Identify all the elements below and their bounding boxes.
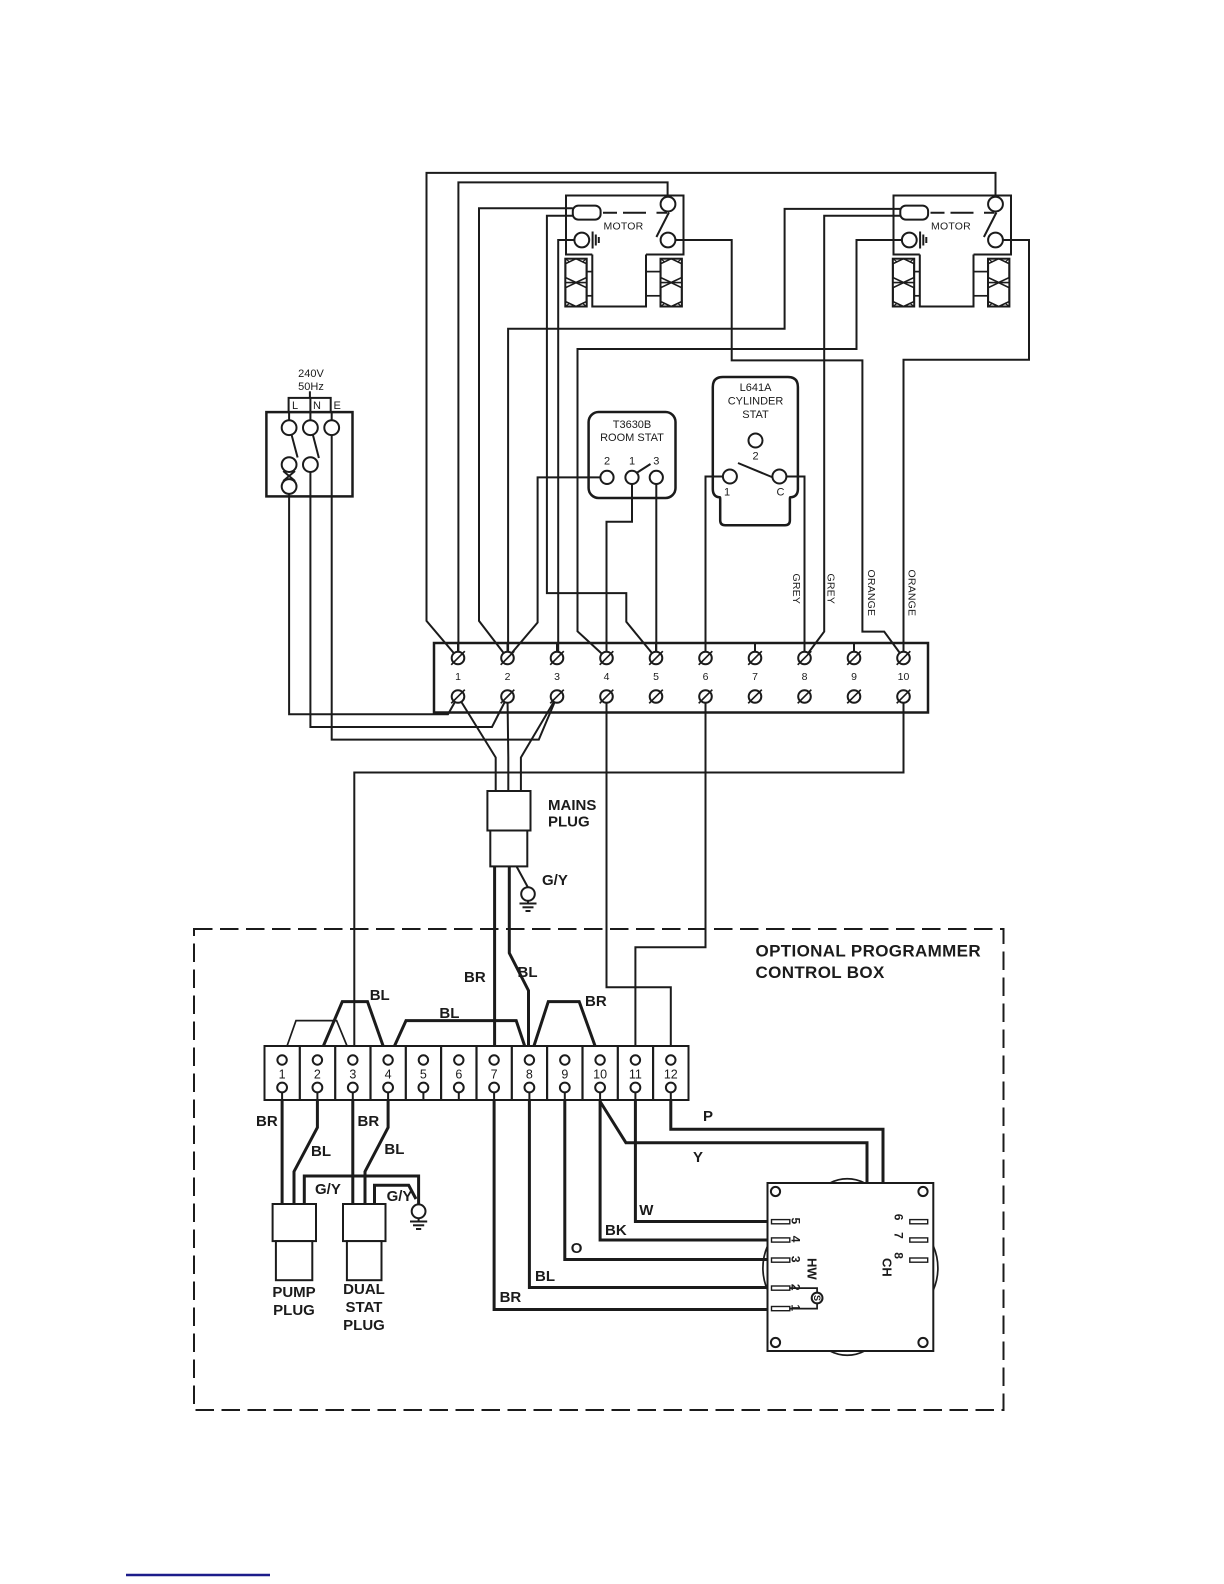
svg-text:GREY: GREY: [790, 574, 802, 605]
svg-text:BR: BR: [358, 1113, 380, 1130]
wire: M2 motor winding (upper) to terminal 2: [508, 209, 900, 658]
svg-text:BL: BL: [370, 987, 390, 1004]
svg-text:Y: Y: [693, 1149, 703, 1166]
terminal 2 top: [507, 643, 509, 658]
svg-text:7: 7: [491, 1068, 498, 1082]
wire Y: control terminal 10 to programmer 7: [600, 1102, 911, 1241]
terminal 5 bottom: [650, 690, 663, 703]
wire: terminal 10 to control terminal 3: [354, 697, 903, 1061]
svg-text:10: 10: [593, 1068, 607, 1082]
terminal 3 bottom: [551, 690, 564, 703]
svg-text:PLUG: PLUG: [548, 814, 590, 831]
svg-text:3: 3: [349, 1068, 356, 1082]
main terminal strip (1-10): [434, 643, 928, 713]
wire BL: mains plug to control terminal 8: [509, 866, 528, 1060]
svg-text:6: 6: [703, 671, 709, 683]
wire: terminal 3 to mains plug (E): [521, 697, 557, 792]
wire BR: control terminal 7 to programmer 1: [494, 1088, 773, 1310]
svg-text:T3630B: T3630B: [613, 419, 652, 431]
svg-text:L: L: [292, 400, 298, 412]
control terminal 1: [281, 1088, 283, 1101]
svg-text:G/Y: G/Y: [542, 872, 568, 889]
svg-text:ORANGE: ORANGE: [865, 570, 877, 617]
motor M2 (right valve motor): [893, 196, 1011, 307]
svg-text:G/Y: G/Y: [315, 1181, 341, 1198]
wire BR: control terminal 1 to pump plug: [281, 1088, 284, 1205]
terminal 8 bottom: [798, 690, 811, 703]
programmer pin 8: [910, 1258, 928, 1262]
svg-text:GREY: GREY: [825, 574, 837, 605]
svg-text:3: 3: [653, 456, 659, 468]
svg-text:OPTIONAL PROGRAMMER: OPTIONAL PROGRAMMER: [756, 942, 981, 961]
svg-text:E: E: [334, 400, 341, 412]
svg-text:N: N: [313, 400, 321, 412]
svg-text:5: 5: [420, 1068, 427, 1082]
svg-text:L641A: L641A: [740, 382, 772, 394]
wire: M2 lower-left terminal to terminal 4: [578, 240, 902, 658]
programmer pin 4: [772, 1238, 790, 1242]
switch contact N: [303, 457, 318, 472]
svg-text:STAT: STAT: [742, 409, 769, 421]
terminal 6 bottom: [699, 690, 712, 703]
svg-text:ORANGE: ORANGE: [906, 570, 918, 617]
svg-text:4: 4: [385, 1068, 392, 1082]
programmer pin 2: [772, 1286, 790, 1290]
wire BR: control terminal 3 to dual stat plug: [351, 1088, 354, 1205]
svg-text:G/Y: G/Y: [387, 1188, 413, 1205]
dual stat plug: [343, 1204, 386, 1334]
svg-text:CONTROL BOX: CONTROL BOX: [756, 963, 885, 982]
control terminal 2: [316, 1088, 318, 1101]
terminal 8 top: [804, 643, 806, 658]
svg-text:W: W: [639, 1202, 654, 1219]
svg-text:CYLINDER: CYLINDER: [728, 396, 784, 408]
control box terminal strip (1-12): [265, 1046, 689, 1100]
svg-text:BR: BR: [585, 993, 607, 1010]
wire E: supply to terminal 3: [332, 496, 557, 739]
earth terminal G/Y (control box): [410, 1204, 427, 1229]
programmer pin 3: [772, 1258, 790, 1262]
svg-text:O: O: [571, 1240, 583, 1257]
svg-text:240V: 240V: [298, 368, 324, 380]
terminal 5 top: [655, 643, 657, 658]
wire: M2 switch common to terminal 1: [427, 173, 996, 658]
wire: terminal 2 to mains plug (N): [507, 697, 510, 792]
svg-text:4: 4: [789, 1236, 803, 1243]
svg-text:P: P: [703, 1108, 713, 1125]
svg-text:1: 1: [279, 1068, 286, 1082]
wire: room stat 2 to terminal 2: [508, 477, 601, 658]
terminal 1 bottom: [452, 690, 465, 703]
earth terminal G/Y (mains plug): [520, 872, 568, 911]
svg-text:BL: BL: [535, 1268, 555, 1285]
svg-text:50Hz: 50Hz: [298, 381, 324, 393]
svg-text:1: 1: [455, 671, 461, 683]
programmer pin 1: [772, 1307, 790, 1311]
terminal 10 top: [903, 643, 905, 658]
svg-text:10: 10: [898, 671, 910, 683]
room stat T3630B: [589, 412, 676, 498]
mains supply 240V 50Hz connector: [266, 368, 352, 496]
svg-text:S: S: [812, 1295, 822, 1301]
svg-text:MOTOR: MOTOR: [604, 221, 644, 233]
wire G/Y: dual stat plug to earth: [375, 1185, 417, 1204]
svg-text:7: 7: [752, 671, 758, 683]
control terminal 12: [670, 1088, 672, 1101]
control terminal 3: [352, 1088, 354, 1101]
wire BL: control terminal 4 to 8: [388, 1021, 529, 1060]
wire G/Y: mains plug earth tail: [517, 866, 529, 887]
svg-text:6: 6: [892, 1214, 906, 1221]
svg-text:HW: HW: [805, 1258, 820, 1280]
control terminal 8: [528, 1088, 530, 1101]
optional programmer control box (dashed outline): [194, 929, 1004, 1410]
svg-text:PUMP: PUMP: [272, 1284, 315, 1301]
control terminal 6: [458, 1088, 460, 1101]
svg-text:STAT: STAT: [346, 1299, 383, 1316]
wire: M1 motor winding (upper) to terminal 2: [479, 208, 573, 658]
terminal 2 bottom: [501, 690, 514, 703]
switch pole N: [313, 435, 319, 459]
svg-text:DUAL: DUAL: [343, 1281, 385, 1298]
programmer synchronous motor S: [790, 1288, 818, 1309]
svg-text:3: 3: [789, 1256, 803, 1263]
wire BL: control terminal 2 to pump plug: [294, 1088, 317, 1205]
programmer pin 7: [910, 1238, 928, 1242]
control terminal 4: [387, 1088, 389, 1101]
svg-text:BL: BL: [518, 964, 538, 981]
svg-text:C: C: [777, 487, 785, 499]
wire: terminal 1 to mains plug (L): [458, 697, 496, 792]
wire W: control terminal 11 to programmer 5: [635, 1088, 773, 1222]
svg-text:BL: BL: [311, 1143, 331, 1160]
svg-text:5: 5: [789, 1218, 803, 1225]
control terminal 10: [599, 1088, 601, 1101]
wire BL: control terminal 4 to dual stat plug: [365, 1088, 388, 1205]
wire: terminal 4 to control terminal 12: [607, 697, 671, 1061]
wire: room stat 1 to terminal 4: [607, 484, 633, 658]
svg-text:2: 2: [314, 1068, 321, 1082]
svg-text:BK: BK: [605, 1222, 627, 1239]
terminal 9 top: [853, 643, 855, 658]
svg-text:BR: BR: [464, 969, 486, 986]
terminal 3 top: [556, 643, 558, 658]
wire BR: control terminal 8 to 10: [529, 1002, 600, 1060]
programmer unit: [763, 1179, 938, 1356]
switch contact L: [282, 457, 297, 472]
svg-text:4: 4: [604, 671, 610, 683]
svg-text:BR: BR: [500, 1289, 522, 1306]
wire BL: control terminal 8 to programmer 2: [529, 1088, 773, 1288]
control terminal 5: [422, 1088, 424, 1101]
control terminal 7: [493, 1088, 495, 1101]
svg-text:3: 3: [554, 671, 560, 683]
wire: room stat 3 to terminal 5: [655, 484, 657, 658]
svg-text:8: 8: [526, 1068, 533, 1082]
wire: M1 lower-left terminal to terminal 3: [558, 240, 575, 658]
wire: M1 switch common to terminal 1: [458, 182, 667, 658]
svg-text:MAINS: MAINS: [548, 797, 596, 814]
fuse terminal L: [282, 479, 297, 494]
wire GREY: cylinder stat C to terminal 8: [786, 477, 804, 659]
terminal E: [324, 420, 339, 435]
wire: cylinder stat 1 to terminal 6: [706, 477, 724, 659]
programmer pin 6: [910, 1220, 928, 1224]
wire: M1 motor winding (lower) to terminal 5: [547, 216, 656, 658]
wire BK: control terminal 10 to programmer 4: [600, 1088, 773, 1241]
wire N: supply to terminal 2: [310, 496, 507, 727]
wire L: supply to terminal 1: [289, 496, 458, 714]
terminal 7 top: [754, 643, 756, 658]
wire ORANGE: M1 switch contact to terminal 10: [675, 240, 904, 658]
programmer pin 5: [772, 1220, 790, 1224]
terminal N: [303, 420, 318, 435]
svg-text:ROOM STAT: ROOM STAT: [600, 432, 664, 444]
wire G/Y: pump plug to earth: [304, 1176, 418, 1204]
wire link: control terminal 1 to 3: [282, 1021, 353, 1060]
terminal 6 top: [705, 643, 707, 658]
svg-text:BR: BR: [256, 1113, 278, 1130]
terminal 7 bottom: [749, 690, 762, 703]
cylinder stat L641A: [713, 377, 798, 525]
wire O: control terminal 9 to programmer 3: [565, 1088, 773, 1260]
terminal 4 bottom: [600, 690, 613, 703]
mains plug: [487, 791, 596, 866]
svg-text:1: 1: [629, 456, 635, 468]
svg-text:5: 5: [653, 671, 659, 683]
terminal 4 top: [606, 643, 608, 658]
svg-text:6: 6: [455, 1068, 462, 1082]
svg-text:2: 2: [752, 451, 758, 463]
svg-text:1: 1: [724, 487, 730, 499]
control terminal 11: [634, 1088, 636, 1101]
fuse link L: [283, 471, 295, 481]
footer rule: [126, 1574, 270, 1576]
svg-text:9: 9: [561, 1068, 568, 1082]
wire BL: control terminal 2 to 4: [317, 1002, 388, 1060]
wire: terminal 6 to control terminal 11: [635, 697, 705, 1061]
pump plug: [272, 1204, 316, 1319]
svg-text:CH: CH: [880, 1258, 895, 1277]
wire GREY: M2 motor winding (lower) to terminal 8: [805, 216, 901, 658]
wire ORANGE: M2 switch contact to terminal 10: [904, 240, 1030, 658]
svg-text:12: 12: [664, 1068, 678, 1082]
switch pole L: [292, 435, 298, 458]
svg-text:8: 8: [802, 671, 808, 683]
svg-text:PLUG: PLUG: [273, 1302, 315, 1319]
svg-text:BL: BL: [384, 1141, 404, 1158]
svg-text:2: 2: [604, 456, 610, 468]
control terminal 9: [564, 1088, 566, 1101]
svg-text:PLUG: PLUG: [343, 1317, 385, 1334]
terminal 9 bottom: [848, 690, 861, 703]
wire P: control terminal 12 to programmer 6: [671, 1088, 911, 1222]
svg-text:BL: BL: [439, 1005, 459, 1022]
svg-text:9: 9: [851, 671, 857, 683]
svg-text:MOTOR: MOTOR: [931, 221, 971, 233]
terminal 10 bottom: [897, 690, 910, 703]
wire BR: mains plug to control terminal 7: [493, 866, 496, 1060]
terminal L: [282, 420, 297, 435]
terminal 1 top: [457, 643, 459, 658]
svg-text:2: 2: [505, 671, 511, 683]
svg-text:7: 7: [892, 1232, 906, 1239]
svg-text:11: 11: [629, 1068, 642, 1082]
motor M1 (left valve motor): [565, 196, 683, 307]
